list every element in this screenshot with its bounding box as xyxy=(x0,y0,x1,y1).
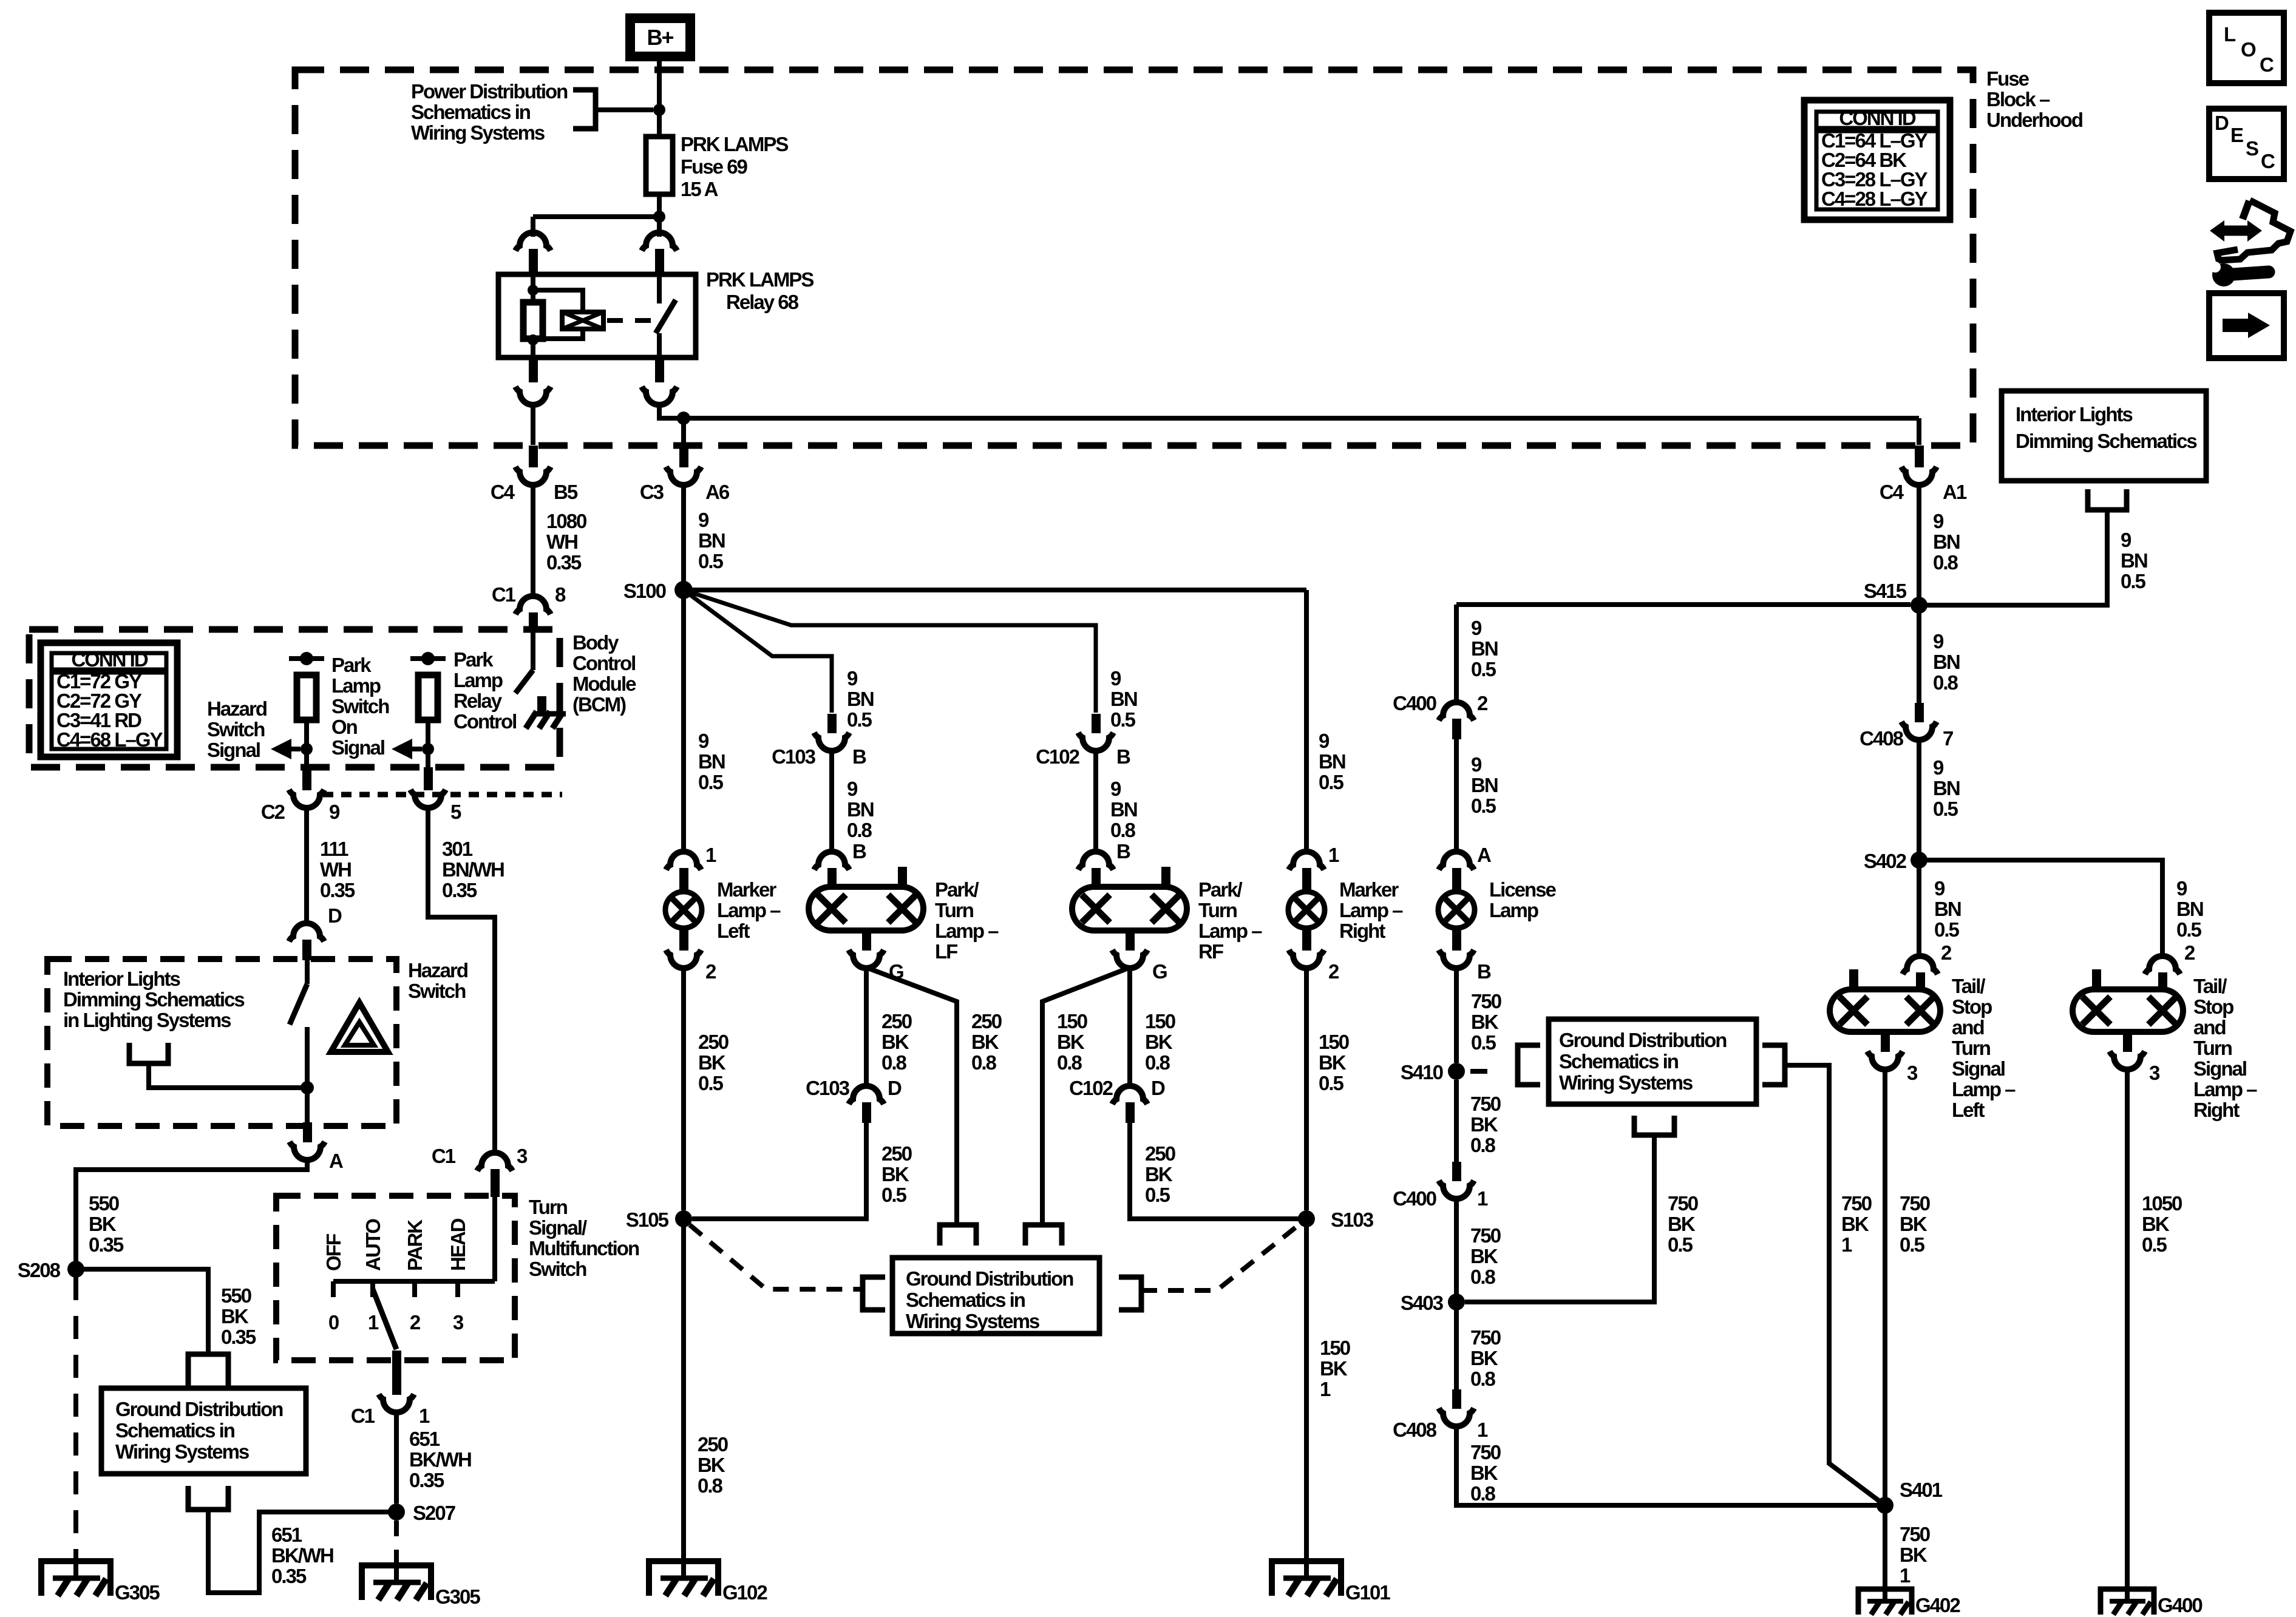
svg-text:BK: BK xyxy=(971,1031,999,1053)
LF unused pin stub xyxy=(898,867,907,887)
svg-text:651: 651 xyxy=(271,1524,302,1546)
svg-text:550: 550 xyxy=(89,1192,119,1215)
svg-text:1: 1 xyxy=(1841,1233,1852,1256)
svg-text:BK: BK xyxy=(1841,1213,1869,1235)
RF pin G stub xyxy=(1126,931,1135,951)
BCM hazard switch signal pull-up column xyxy=(289,656,324,661)
svg-text:Right: Right xyxy=(1339,920,1385,942)
wire B+ to fuse 69 xyxy=(657,56,662,137)
connector C1 pin 1 stub xyxy=(392,1351,401,1395)
relay internal wire coil bottom xyxy=(533,329,583,339)
wire junction across top to right side (to C4 A1) xyxy=(684,416,1919,421)
svg-text:C408: C408 xyxy=(1393,1419,1437,1441)
wire dimming ref to hazard contact xyxy=(149,1063,307,1088)
svg-text:Marker: Marker xyxy=(1339,878,1399,901)
connector C102 pin B xyxy=(1078,733,1113,751)
svg-text:S415: S415 xyxy=(1864,580,1907,602)
svg-text:LF: LF xyxy=(935,940,957,963)
dashed wire gnd reference to S103 xyxy=(1141,1224,1300,1290)
svg-text:9: 9 xyxy=(1110,667,1121,690)
svg-text:BK: BK xyxy=(698,1051,726,1074)
svg-text:BN: BN xyxy=(1933,777,1960,799)
hazard switch blade xyxy=(290,984,307,1025)
icon harness routing outline xyxy=(2217,200,2291,260)
icon box DESC xyxy=(2209,109,2284,179)
arrow hazard switch signal xyxy=(287,747,301,751)
connector relay switch feed (fuse block cavity) xyxy=(642,232,677,251)
svg-text:B: B xyxy=(852,840,866,863)
svg-text:D: D xyxy=(2215,112,2229,134)
connector C4 pin B5 xyxy=(515,467,551,485)
C102 pin D stub xyxy=(1126,1102,1135,1123)
BCM internal ground symbol xyxy=(537,711,566,717)
svg-text:G305: G305 xyxy=(435,1585,480,1608)
svg-text:0.5: 0.5 xyxy=(1110,708,1136,731)
svg-text:BK/WH: BK/WH xyxy=(409,1448,471,1471)
connector C4 pin A1 xyxy=(1901,467,1937,485)
svg-text:HEAD: HEAD xyxy=(447,1218,469,1271)
svg-text:BN: BN xyxy=(1934,898,1961,920)
svg-text:BK: BK xyxy=(1320,1357,1348,1380)
svg-text:0.5: 0.5 xyxy=(698,550,724,572)
svg-text:15 A: 15 A xyxy=(681,178,718,200)
svg-text:S208: S208 xyxy=(18,1259,61,1281)
dash S410 to gnd reference bracket xyxy=(1470,1069,1490,1074)
connector C408 pin 1 stub xyxy=(1452,1389,1461,1409)
svg-text:750: 750 xyxy=(1841,1192,1872,1215)
svg-text:RF: RF xyxy=(1198,940,1223,963)
svg-text:S207: S207 xyxy=(413,1502,455,1524)
svg-text:BN: BN xyxy=(1471,774,1498,796)
svg-text:5: 5 xyxy=(450,801,461,823)
svg-text:D: D xyxy=(888,1077,902,1099)
svg-text:CONN ID: CONN ID xyxy=(71,648,148,671)
connector C400 pin 1 stub xyxy=(1452,1162,1461,1181)
svg-text:WH: WH xyxy=(546,531,577,553)
node relay output junction xyxy=(677,412,690,425)
connector tail right pin 2 xyxy=(2145,956,2180,974)
svg-text:G102: G102 xyxy=(722,1581,767,1604)
wire to S403 xyxy=(1454,1198,1459,1296)
svg-text:BK: BK xyxy=(1145,1163,1173,1185)
svg-text:2: 2 xyxy=(1328,960,1339,983)
bracket gnd ref right box left xyxy=(1518,1045,1540,1085)
wire 651 BK/WH to S207 xyxy=(394,1412,399,1503)
bracket gnd ref right box right xyxy=(1762,1045,1785,1085)
splice S403 xyxy=(1448,1293,1465,1310)
svg-text:0.8: 0.8 xyxy=(1057,1051,1082,1074)
battery feed B+ terminal box xyxy=(630,18,690,56)
svg-text:C102: C102 xyxy=(1069,1077,1113,1099)
connector tail left pin 3 xyxy=(1867,1051,1903,1070)
svg-text:C4=28 L–GY: C4=28 L–GY xyxy=(1821,188,1928,210)
svg-text:750: 750 xyxy=(1470,1224,1501,1247)
node hazard lamp feed xyxy=(301,1081,314,1094)
resistor BCM park lamp on signal xyxy=(418,675,438,720)
bracket interior lights dimming reference xyxy=(129,1043,168,1063)
svg-text:BK: BK xyxy=(2142,1213,2170,1235)
svg-text:BN: BN xyxy=(2121,549,2147,572)
svg-text:Lamp: Lamp xyxy=(1489,899,1538,921)
svg-text:750: 750 xyxy=(1668,1192,1698,1215)
svg-text:Signal: Signal xyxy=(207,739,260,761)
svg-text:0.35: 0.35 xyxy=(221,1326,256,1348)
svg-text:Relay: Relay xyxy=(453,690,503,712)
relay switch fixed contact top xyxy=(657,274,662,303)
svg-text:0.35: 0.35 xyxy=(546,551,582,574)
svg-text:C1: C1 xyxy=(351,1405,375,1427)
bracket gnd ref top right xyxy=(1025,1225,1062,1246)
svg-text:0.5: 0.5 xyxy=(881,1184,907,1206)
svg-text:111: 111 xyxy=(320,838,348,860)
svg-text:1080: 1080 xyxy=(546,510,586,532)
svg-text:0.5: 0.5 xyxy=(847,708,872,731)
svg-text:1: 1 xyxy=(1477,1187,1488,1210)
switch position bus line xyxy=(333,1279,495,1284)
svg-text:150: 150 xyxy=(1320,1337,1350,1359)
svg-text:250: 250 xyxy=(1145,1142,1175,1165)
wire 9 BN 0.5 from interior lights to S415 xyxy=(1926,510,2107,605)
tail right pin 3 stub xyxy=(2123,1032,2132,1052)
svg-text:Signal/: Signal/ xyxy=(529,1216,587,1239)
C103 pin D stub xyxy=(862,1102,871,1123)
svg-text:Dimming Schematics: Dimming Schematics xyxy=(2016,430,2196,452)
svg-text:BN/WH: BN/WH xyxy=(442,858,504,881)
wire 150 BK 0.5 to S103 xyxy=(1304,968,1309,1210)
svg-text:0.5: 0.5 xyxy=(1471,658,1496,680)
tail left pin 3 stub xyxy=(1881,1032,1890,1052)
ground G305 (left) xyxy=(41,1561,110,1596)
dotted connector face line C2 xyxy=(323,792,562,798)
svg-text:Wiring Systems: Wiring Systems xyxy=(1559,1071,1693,1094)
svg-text:9: 9 xyxy=(1471,753,1482,776)
svg-text:Hazard: Hazard xyxy=(408,959,467,981)
svg-text:Signal: Signal xyxy=(2193,1057,2246,1080)
svg-text:0.5: 0.5 xyxy=(1934,918,1960,941)
connector C4 pin A1 stub xyxy=(1915,446,1924,467)
svg-text:0.5: 0.5 xyxy=(1145,1184,1170,1206)
node hazard signal xyxy=(300,652,313,665)
svg-text:S105: S105 xyxy=(626,1209,669,1231)
svg-text:Stop: Stop xyxy=(1952,995,1992,1018)
svg-text:2: 2 xyxy=(1477,692,1488,714)
bracket gnd ref (left box) bottom xyxy=(188,1486,228,1510)
svg-text:C103: C103 xyxy=(806,1077,850,1099)
wire S401 to G402 xyxy=(1883,1513,1887,1587)
svg-text:2: 2 xyxy=(410,1311,421,1334)
icon double arrow xyxy=(2222,226,2247,236)
svg-text:1: 1 xyxy=(1477,1419,1488,1441)
connector marker lamp left pin 1 xyxy=(666,852,701,870)
wire 9 BN to S100 xyxy=(681,484,686,584)
svg-text:Turn: Turn xyxy=(1198,899,1237,921)
connector tail left pin 2 xyxy=(1903,956,1938,974)
lamp Marker Lamp - Left xyxy=(665,892,702,928)
svg-text:BK: BK xyxy=(881,1163,909,1185)
wire 111 WH to hazard switch xyxy=(304,807,309,924)
license pin A stub xyxy=(1452,868,1461,892)
fuse block - underhood dashed box xyxy=(295,70,1973,446)
relay switch output stub xyxy=(655,358,664,382)
svg-text:Signal: Signal xyxy=(1952,1057,2005,1080)
node fuse output junction xyxy=(653,211,665,223)
relay K68 PRK LAMPS box xyxy=(498,274,696,358)
svg-text:0.8: 0.8 xyxy=(1110,819,1136,841)
svg-text:750: 750 xyxy=(1900,1192,1930,1215)
svg-text:(BCM): (BCM) xyxy=(572,693,626,716)
wire relay coil output down to C4 B5 xyxy=(531,404,535,445)
svg-text:0.35: 0.35 xyxy=(89,1233,124,1256)
svg-text:PRK LAMPS: PRK LAMPS xyxy=(706,268,813,291)
connector C400 pin 2 stub xyxy=(1452,719,1461,739)
svg-text:BK: BK xyxy=(1900,1544,1927,1566)
svg-text:3: 3 xyxy=(2149,1062,2160,1084)
svg-text:Fuse 69: Fuse 69 xyxy=(681,155,748,178)
CONN ID table (fuse block) xyxy=(1804,100,1950,220)
svg-text:Lamp –: Lamp – xyxy=(717,899,781,921)
fuse F69 PRK LAMPS 15A xyxy=(646,137,673,194)
svg-text:E: E xyxy=(2230,124,2243,146)
svg-text:9: 9 xyxy=(2121,529,2131,551)
svg-text:A1: A1 xyxy=(1943,481,1967,503)
reference box Ground Distribution Schematics (middle) xyxy=(892,1258,1099,1334)
connector C408 pin 7 stub xyxy=(1915,703,1924,722)
wire 250 BK 0.8 to G102 xyxy=(681,1227,686,1558)
svg-text:Turn: Turn xyxy=(529,1196,568,1218)
svg-text:0.35: 0.35 xyxy=(320,879,355,901)
splice S402 xyxy=(1911,852,1927,869)
lamp Park/Turn Lamp - RF xyxy=(1072,887,1187,931)
svg-text:0.8: 0.8 xyxy=(1470,1482,1496,1505)
LF pin B stub xyxy=(827,868,837,887)
wire 1080 WH to BCM xyxy=(531,484,535,595)
svg-text:G402: G402 xyxy=(1915,1594,1960,1616)
svg-text:BN: BN xyxy=(847,688,874,710)
svg-text:Tail/: Tail/ xyxy=(1952,975,1985,997)
svg-text:C1: C1 xyxy=(432,1145,456,1167)
svg-text:Right: Right xyxy=(2193,1099,2240,1121)
svg-text:250: 250 xyxy=(881,1010,912,1032)
svg-text:1: 1 xyxy=(705,844,716,866)
svg-text:1: 1 xyxy=(1900,1564,1911,1587)
svg-text:0.5: 0.5 xyxy=(1319,1072,1344,1094)
svg-text:9: 9 xyxy=(1933,756,1944,779)
wire S100 down to marker lamp left xyxy=(681,598,686,852)
BCM internal switch (park lamp relay control) xyxy=(531,631,535,670)
icon box LOC xyxy=(2209,13,2284,83)
svg-text:9: 9 xyxy=(1933,630,1944,653)
svg-text:Switch: Switch xyxy=(529,1258,586,1280)
lamp Tail/Stop and Turn Signal Lamp - Left xyxy=(1830,989,1940,1032)
svg-text:Park: Park xyxy=(453,648,494,671)
svg-text:Lamp –: Lamp – xyxy=(1198,920,1262,942)
wire branch to relay coil pin xyxy=(533,214,659,219)
svg-text:750: 750 xyxy=(1900,1523,1930,1545)
svg-text:BN: BN xyxy=(698,750,725,773)
svg-text:8: 8 xyxy=(555,583,566,606)
svg-text:C400: C400 xyxy=(1393,1187,1436,1210)
svg-text:1: 1 xyxy=(368,1311,379,1334)
connector C2 pin 5 xyxy=(410,790,446,808)
svg-text:BN: BN xyxy=(1110,798,1137,821)
svg-text:9: 9 xyxy=(1933,510,1944,532)
svg-text:Multifunction: Multifunction xyxy=(529,1237,639,1259)
connector C4 pin B5 stub xyxy=(529,446,538,467)
hazard pin D stub xyxy=(302,940,311,960)
svg-text:Turn: Turn xyxy=(935,899,974,921)
tail right pin 2 stub xyxy=(2158,972,2167,990)
svg-text:Hazard: Hazard xyxy=(207,697,267,720)
splice S415 xyxy=(1911,597,1927,614)
svg-text:BK: BK xyxy=(1057,1031,1085,1053)
svg-text:B: B xyxy=(1477,960,1491,983)
wire 750 BK 1 to S401 xyxy=(1785,1065,1885,1505)
bracket gnd ref (left box) top xyxy=(188,1354,228,1386)
svg-text:Schematics in: Schematics in xyxy=(115,1419,235,1442)
svg-text:BK: BK xyxy=(89,1213,117,1235)
connector license lamp pin A xyxy=(1439,852,1474,870)
switch position ticks xyxy=(331,1281,336,1297)
wire S403 to C408-1 xyxy=(1454,1310,1459,1389)
wire S402 to tail lamp left xyxy=(1917,868,1921,958)
relay pin stub (coil +) xyxy=(529,249,538,274)
svg-text:750: 750 xyxy=(1470,1093,1501,1115)
svg-text:BK: BK xyxy=(1470,1113,1498,1136)
svg-text:0.5: 0.5 xyxy=(2142,1233,2167,1256)
svg-text:0.8: 0.8 xyxy=(698,1474,723,1497)
relay pin stub (switch com) xyxy=(655,249,664,274)
svg-text:0.8: 0.8 xyxy=(881,1051,907,1074)
svg-text:0.5: 0.5 xyxy=(698,771,724,793)
reference box Interior Lights Dimming Schematics xyxy=(2002,391,2206,481)
svg-text:BN: BN xyxy=(2176,898,2203,920)
svg-text:A: A xyxy=(329,1150,343,1172)
splice S208 xyxy=(67,1261,84,1278)
svg-text:1050: 1050 xyxy=(2142,1192,2182,1215)
dashed wire S208 to G305 xyxy=(73,1277,78,1558)
svg-text:651: 651 xyxy=(409,1428,440,1450)
svg-text:Lamp –: Lamp – xyxy=(2193,1078,2257,1100)
svg-text:0.8: 0.8 xyxy=(1470,1134,1496,1156)
svg-text:B5: B5 xyxy=(554,481,578,503)
svg-text:2: 2 xyxy=(1941,941,1952,964)
wire to license lamp xyxy=(1454,739,1459,852)
svg-text:S103: S103 xyxy=(1331,1209,1374,1231)
svg-text:9: 9 xyxy=(698,730,709,752)
svg-text:Wiring Systems: Wiring Systems xyxy=(906,1310,1039,1332)
wire to S402 xyxy=(1917,739,1921,854)
svg-text:BK: BK xyxy=(221,1305,249,1327)
turn signal pin 3 stub xyxy=(491,1169,500,1197)
svg-text:L: L xyxy=(2224,23,2236,46)
svg-text:Wiring Systems: Wiring Systems xyxy=(115,1440,249,1463)
dashed wire S207 to G305 xyxy=(394,1520,399,1562)
svg-text:Stop: Stop xyxy=(2193,995,2233,1018)
svg-text:OFF: OFF xyxy=(322,1234,345,1271)
ground G101 xyxy=(1272,1561,1341,1596)
relay internal resistor xyxy=(523,302,543,339)
svg-text:9: 9 xyxy=(329,801,340,823)
svg-text:0.8: 0.8 xyxy=(1470,1368,1496,1390)
wire relay switch output to junction xyxy=(659,404,684,418)
bracket power distribution reference xyxy=(573,90,596,129)
svg-text:C: C xyxy=(2261,150,2275,172)
svg-text:9: 9 xyxy=(847,778,858,800)
wire C102-B to lamp xyxy=(1093,750,1098,852)
svg-text:in Lighting Systems: in Lighting Systems xyxy=(63,1009,231,1031)
svg-text:0.5: 0.5 xyxy=(1319,771,1344,793)
wire 150 BK 0.8 RF to C102-D xyxy=(1127,968,1132,1086)
wire S402 to tail lamp right xyxy=(1919,860,2162,958)
wire pin3 to bus xyxy=(492,1197,497,1281)
tail left unused pin stub xyxy=(1849,969,1858,989)
svg-text:BK: BK xyxy=(1900,1213,1927,1235)
svg-text:Underhood: Underhood xyxy=(1986,109,2082,131)
arrow park lamp switch on signal xyxy=(407,747,422,751)
marker left pin 1 stub xyxy=(679,868,688,892)
wire fuse node down to relay switch pin xyxy=(657,217,662,237)
relay internal: coil branch node top xyxy=(531,274,535,302)
connector C400 pin 2 xyxy=(1439,702,1474,720)
connector relay switch output (cavity) xyxy=(642,387,677,405)
svg-text:BK: BK xyxy=(1470,1245,1498,1267)
svg-text:250: 250 xyxy=(698,1031,729,1053)
wire S410 down to C400-1 xyxy=(1454,1080,1459,1162)
svg-text:BK: BK xyxy=(1470,1347,1498,1369)
wire 750 BK 0.8 to S401 xyxy=(1456,1426,1878,1505)
bracket interior lights reference xyxy=(2088,489,2127,510)
svg-text:Lamp: Lamp xyxy=(331,674,381,697)
relay coil output stub xyxy=(529,358,538,382)
svg-text:301: 301 xyxy=(442,838,473,860)
wire S208 to gnd reference bracket xyxy=(76,1269,208,1354)
svg-text:C4=68 L–GY: C4=68 L–GY xyxy=(56,728,163,751)
splice S410 xyxy=(1448,1063,1465,1080)
svg-text:9: 9 xyxy=(698,509,709,531)
svg-text:9: 9 xyxy=(1110,778,1121,800)
svg-text:3: 3 xyxy=(1907,1062,1918,1084)
svg-text:Body: Body xyxy=(572,631,619,654)
splice S103 xyxy=(1298,1210,1315,1227)
svg-text:0.5: 0.5 xyxy=(2121,570,2146,592)
svg-text:0.35: 0.35 xyxy=(409,1469,444,1491)
svg-text:G400: G400 xyxy=(2158,1594,2202,1616)
svg-text:Park: Park xyxy=(331,654,372,676)
wire 1050 BK 0.5 to G400 xyxy=(2125,1069,2130,1587)
svg-text:Interior Lights: Interior Lights xyxy=(63,968,180,990)
wire S100 to C102 xyxy=(684,590,1096,713)
resistor BCM hazard signal xyxy=(297,675,316,720)
svg-text:BN: BN xyxy=(698,529,725,552)
connector RF pin B xyxy=(1078,852,1113,870)
svg-text:BK: BK xyxy=(1145,1031,1173,1053)
svg-text:0.8: 0.8 xyxy=(1145,1051,1170,1074)
connector C102 pin B stub xyxy=(1092,714,1101,733)
svg-text:750: 750 xyxy=(1470,1326,1501,1349)
connector hazard pin A xyxy=(290,1142,325,1160)
wire bracket to B+ feed xyxy=(596,107,653,112)
svg-text:Relay 68: Relay 68 xyxy=(726,291,799,313)
bracket gnd ref right xyxy=(1119,1277,1141,1310)
bracket gnd ref top left xyxy=(940,1225,976,1246)
svg-text:0.5: 0.5 xyxy=(1668,1233,1693,1256)
node park lamp on arrow tap xyxy=(422,743,434,755)
BCM switch blade xyxy=(515,670,533,693)
svg-text:G305: G305 xyxy=(115,1581,160,1604)
BCM dashed box xyxy=(29,629,560,767)
svg-text:B: B xyxy=(1116,745,1130,768)
svg-text:Ground Distribution: Ground Distribution xyxy=(906,1267,1073,1290)
